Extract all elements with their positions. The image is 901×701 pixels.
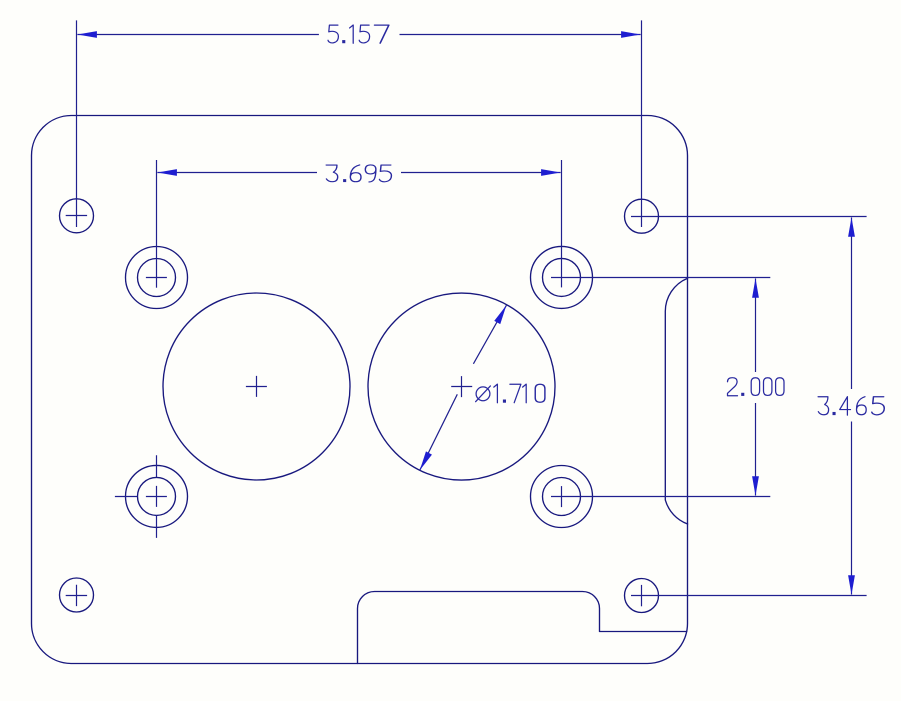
ext line 5.157 right: [641, 20, 643, 227]
ext line 3.695 left: [156, 160, 158, 288]
arrow 3.465 top: [848, 217, 855, 237]
big circle right: [368, 293, 555, 480]
dim line 5.157 right segment: [400, 34, 641, 36]
bolt hole bottom-right outer: [531, 466, 593, 528]
text dia 1.710: [476, 384, 545, 403]
arrow 2.000 bottom: [752, 476, 759, 496]
corner hole top-left: [60, 199, 94, 233]
arrow 2.000 top: [752, 278, 759, 298]
arrow 5.157 left: [77, 31, 97, 38]
arrow 3.465 bottom: [848, 575, 855, 595]
dim line 3.465 bottom segment: [851, 422, 853, 595]
arrow dia bottom-left: [417, 451, 432, 471]
bolt hole top-right inner: [543, 258, 581, 296]
text 5.157: [328, 25, 389, 43]
dim line 2.000 top segment: [755, 279, 757, 373]
arrow 5.157 right: [621, 31, 641, 38]
corner hole bottom-right: [625, 579, 659, 613]
corner hole bottom-left: [60, 578, 94, 612]
center cross big circle right: [451, 376, 472, 397]
dim line 5.157 left segment: [77, 34, 319, 36]
text 2.000: [728, 378, 785, 396]
big circle left: [163, 293, 350, 480]
bolt hole top-left inner: [138, 259, 176, 297]
ext line 3.695 right: [561, 160, 563, 287]
cross bolt hole top-left: [146, 277, 167, 279]
ext line 5.157 left: [76, 20, 78, 227]
bolt hole bottom-left inner: [138, 477, 176, 515]
ext line 2.000 bottom: [551, 496, 770, 498]
plate outline: [31, 116, 687, 664]
dim line 3.695 right segment: [401, 172, 561, 174]
crosshair corner hole top-left: [66, 215, 87, 217]
bolt hole bottom-left outer: [126, 465, 188, 527]
text 3.695: [326, 165, 391, 182]
ext line 2.000 top: [551, 277, 770, 279]
bolt hole top-right outer: [531, 246, 593, 308]
center cross big circle left: [246, 376, 267, 397]
corner hole top-right: [625, 199, 659, 233]
dia dim line 1.710: [420, 305, 507, 470]
arrow dia top-right: [494, 304, 509, 324]
dim line 3.465 top segment: [851, 218, 853, 390]
ext line 3.465 top: [631, 216, 867, 218]
phi symbol: [476, 387, 490, 401]
bolt hole top-left outer: [126, 247, 188, 309]
dim line 3.695 left segment: [157, 172, 317, 174]
crosshair+vertical corner hole bottom-right: [641, 585, 643, 606]
crosshair corner hole bottom-left: [66, 585, 87, 606]
text 3.465: [818, 397, 884, 415]
tick segs bolt hole bottom-left: [115, 455, 157, 538]
right edge groove: [665, 278, 687, 524]
bolt hole bottom-right inner: [543, 478, 581, 516]
cross bolt hole bottom-right vertical: [561, 486, 563, 507]
arrow 3.695 right: [541, 169, 561, 176]
bottom notch step: [358, 592, 687, 664]
arrow 3.695 left: [157, 169, 177, 176]
cross bolt hole bottom-left: [146, 486, 167, 507]
dim line 2.000 bottom segment: [755, 403, 757, 496]
ext line 3.465 bottom: [631, 595, 867, 597]
